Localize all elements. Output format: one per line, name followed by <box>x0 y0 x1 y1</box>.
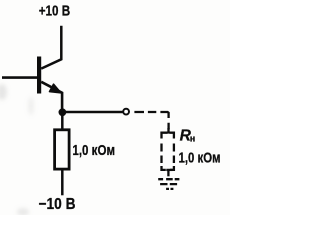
transistor Q1 emitter arrow <box>50 84 61 93</box>
svg-text:н: н <box>190 133 195 143</box>
wire dashed to load <box>134 112 168 129</box>
wire collector to +10V <box>41 26 61 69</box>
wire base lead <box>2 76 37 79</box>
wire dot to R1 <box>61 112 64 130</box>
svg-text:−10 В: −10 В <box>39 196 76 213</box>
svg-text:1,0 кОм: 1,0 кОм <box>72 143 115 159</box>
wire output <box>62 111 123 114</box>
resistor RH dashed box <box>162 128 174 170</box>
transistor Q1 base bar <box>37 57 41 94</box>
wire R1 to -10V <box>61 169 64 195</box>
node output terminal (open circle) <box>123 109 129 115</box>
svg-text:1,0 кОм: 1,0 кОм <box>179 150 221 166</box>
ground (dashed) <box>158 179 179 189</box>
svg-text:+10 В: +10 В <box>39 3 70 19</box>
transistor Q1 emitter <box>41 82 62 112</box>
node junction dot <box>59 108 67 116</box>
background paper <box>0 0 230 215</box>
faint scan smudges <box>0 84 34 216</box>
resistor R1 box <box>55 130 70 169</box>
wire load to ground <box>167 170 169 176</box>
